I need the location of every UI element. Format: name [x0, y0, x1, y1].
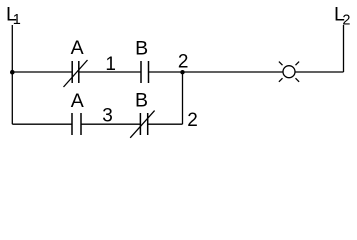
- svg-text:2: 2: [342, 13, 350, 29]
- svg-text:3: 3: [102, 105, 113, 126]
- svg-text:B: B: [135, 89, 148, 111]
- svg-text:2: 2: [187, 110, 198, 131]
- svg-text:2: 2: [178, 51, 189, 72]
- svg-text:1: 1: [13, 12, 21, 28]
- svg-text:A: A: [71, 37, 84, 59]
- svg-text:B: B: [135, 37, 148, 59]
- svg-text:1: 1: [105, 54, 116, 75]
- svg-text:A: A: [71, 90, 84, 112]
